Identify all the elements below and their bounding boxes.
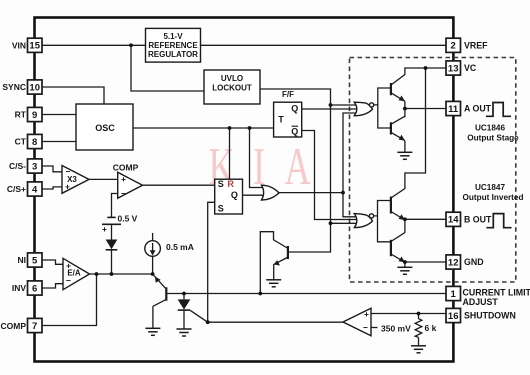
transistor Q2 lower A-totem NPN xyxy=(391,116,405,140)
pin name labels right xyxy=(463,40,530,320)
svg-text:+: + xyxy=(65,181,70,191)
wire clock to latch R input xyxy=(229,128,231,179)
node clock to OR xyxy=(248,126,252,130)
wire OR gate output to PWM node xyxy=(279,192,343,194)
svg-text:SHUTDOWN: SHUTDOWN xyxy=(464,311,516,321)
wire C/S+ pin4 to X3 non-inverting input xyxy=(42,187,62,189)
pin 15 VIN xyxy=(28,38,43,52)
toggle flip-flop F/F box xyxy=(274,102,302,137)
wire X3 output to COMP comparator + input xyxy=(89,178,118,180)
wire shutdown comparator + input to pin16 xyxy=(371,313,446,315)
svg-text:5.1-V: 5.1-V xyxy=(163,32,183,41)
wire clamp diode cathode to shutdown node xyxy=(190,310,207,322)
wire NOR A output branch to A totem bases xyxy=(374,88,391,105)
pin 11 A OUT xyxy=(446,101,461,115)
node clock to latch R xyxy=(228,126,232,130)
diode D1 (0.5V clamp diode) xyxy=(106,240,118,250)
svg-text:15: 15 xyxy=(29,41,40,52)
svg-text:Q: Q xyxy=(291,126,298,136)
node 6k resistor tap xyxy=(417,312,421,316)
ground below clamp transistor xyxy=(145,328,160,335)
PWM latch box xyxy=(215,179,243,214)
node A OUT xyxy=(403,107,407,111)
node shutdown collector xyxy=(258,292,262,296)
pin 14 B OUT xyxy=(446,212,461,226)
svg-text:−: − xyxy=(121,189,126,199)
resistor 6k zigzag xyxy=(415,319,422,338)
svg-text:C/S-: C/S- xyxy=(9,161,26,171)
5.1-V reference regulator box xyxy=(146,28,201,62)
svg-text:9: 9 xyxy=(32,110,37,121)
transistor Q3 upper B-totem NPN xyxy=(391,197,405,221)
svg-text:0.5 V: 0.5 V xyxy=(118,213,138,223)
pin 1 CURRENT LIMIT ADJUST xyxy=(446,286,461,300)
svg-text:REGULATOR: REGULATOR xyxy=(148,50,198,59)
wire COMP comparator output to latch S input xyxy=(143,184,215,186)
svg-text:OSC: OSC xyxy=(95,123,115,133)
pin 2 VREF xyxy=(446,38,461,52)
svg-text:REFERENCE: REFERENCE xyxy=(148,41,198,50)
pin boxes left column xyxy=(28,38,461,332)
svg-text:5: 5 xyxy=(32,255,38,266)
OR gate (PWM) xyxy=(262,185,280,200)
svg-text:6 k: 6 k xyxy=(425,323,437,333)
svg-text:0.5 mA: 0.5 mA xyxy=(166,242,194,252)
wire REF REG output to VREF pin2 xyxy=(201,44,447,46)
ground below B totem xyxy=(397,267,412,274)
pin 8 CT xyxy=(28,134,43,148)
wire B totem lower emitter to GND pin12 xyxy=(405,261,446,263)
svg-text:Q: Q xyxy=(231,190,238,200)
ground below 6k resistor xyxy=(411,346,426,353)
wire UVLO output down to NOR gates and shutdown transistor base xyxy=(260,89,331,252)
node current source xyxy=(151,272,155,276)
wire 0.5V clamp diode to node xyxy=(111,250,113,274)
svg-text:−: − xyxy=(66,275,71,285)
svg-text:UVLO: UVLO xyxy=(221,74,243,83)
dashed output-stage box xyxy=(350,58,516,283)
wire A totem emitter junction xyxy=(404,101,406,117)
node E/A output xyxy=(95,272,99,276)
wire PWM node to NOR B upper input xyxy=(343,193,358,217)
pin 4 C/S+ xyxy=(28,182,43,196)
svg-text:CT: CT xyxy=(15,137,27,147)
svg-text:13: 13 xyxy=(448,63,459,74)
svg-text:+: + xyxy=(121,174,126,184)
transistor Q5 clamp at E/A output (emitter to node) xyxy=(153,274,167,328)
wire latch Q to OR gate lower input xyxy=(243,194,267,196)
svg-text:+: + xyxy=(364,309,369,319)
ground below diode D2 xyxy=(177,329,192,336)
wire B OUT line to pin14 xyxy=(405,218,446,220)
svg-text:1: 1 xyxy=(451,289,457,300)
transistor Q6 shutdown NPN (UVLO driven) xyxy=(287,246,289,259)
svg-text:LOCKOUT: LOCKOUT xyxy=(212,84,252,93)
transistor Q4 lower B-totem NPN xyxy=(391,233,405,263)
wire UVLO branch to NOR B input xyxy=(331,222,359,224)
transistor Q1 upper A-totem NPN xyxy=(391,83,405,101)
pin 16 SHUTDOWN xyxy=(446,308,461,322)
wire NOR B output branch to B totem bases xyxy=(374,201,391,216)
wire VC branch down to B totem collector xyxy=(391,68,426,198)
svg-text:8: 8 xyxy=(32,137,37,148)
svg-text:A OUT: A OUT xyxy=(464,104,492,114)
node UVLO to NOR A xyxy=(329,103,333,107)
wire CT pin8 to OSC xyxy=(42,141,76,143)
svg-text:4: 4 xyxy=(32,184,38,195)
svg-text:VREF: VREF xyxy=(464,40,488,50)
svg-text:INV: INV xyxy=(12,283,27,293)
wire current source to node xyxy=(152,256,154,274)
svg-text:16: 16 xyxy=(448,311,459,322)
diode D2 (clamp on current limit line) xyxy=(183,294,185,300)
PWM comparator COMP xyxy=(118,172,143,198)
svg-text:SYNC: SYNC xyxy=(2,82,26,92)
svg-text:RT: RT xyxy=(15,110,27,120)
svg-text:NI: NI xyxy=(18,255,27,265)
pin 12 GND xyxy=(446,255,461,269)
svg-text:GND: GND xyxy=(464,257,484,267)
wire shutdown comparator - stub xyxy=(371,327,378,329)
wire A OUT line to pin11 xyxy=(405,108,446,110)
wire VIN pin15 to node A and REF REG input xyxy=(42,44,146,46)
wire VC pin13 to A totem collector xyxy=(391,68,446,85)
wire OSC output to F/F T input xyxy=(133,127,274,129)
svg-text:ADJUST: ADJUST xyxy=(463,297,499,307)
pin 9 RT xyxy=(28,107,43,121)
node VC branch xyxy=(424,66,428,70)
svg-text:Output Inverted: Output Inverted xyxy=(463,193,524,202)
wire PWM node to NOR A lower input xyxy=(343,113,358,193)
pin name labels left xyxy=(1,40,27,331)
svg-text:COMP: COMP xyxy=(1,321,27,331)
NOR gate A xyxy=(354,102,372,116)
svg-text:Output Stage: Output Stage xyxy=(467,133,519,142)
svg-text:−: − xyxy=(363,323,368,333)
svg-text:C/S+: C/S+ xyxy=(7,184,26,194)
svg-text:B OUT: B OUT xyxy=(464,214,492,224)
wire COMP comparator - input to 0.5V clamp xyxy=(112,194,118,218)
node A (VIN branch) xyxy=(129,43,133,47)
node B OUT xyxy=(403,217,407,221)
svg-text:11: 11 xyxy=(448,104,459,115)
wire battery to clamp diode xyxy=(111,224,113,239)
battery 0.5 V offset xyxy=(102,217,121,224)
wire INV pin6 to E/A - input xyxy=(42,284,63,288)
svg-text:COMP: COMP xyxy=(113,163,139,173)
node PWM xyxy=(341,191,345,195)
svg-text:2: 2 xyxy=(451,41,456,52)
svg-text:350 mV: 350 mV xyxy=(381,323,411,333)
svg-text:UC1847: UC1847 xyxy=(475,183,505,192)
wire RT pin9 to OSC xyxy=(42,114,76,116)
shutdown comparator triangle xyxy=(343,308,371,335)
node GND emitter xyxy=(403,260,407,264)
ground below A totem xyxy=(397,152,412,159)
error amplifier E/A xyxy=(63,258,90,289)
node clamp diode xyxy=(110,272,114,276)
svg-text:S: S xyxy=(218,204,224,214)
output stage annotations xyxy=(463,124,524,202)
wire F/F Qbar to NOR B input xyxy=(302,131,358,220)
svg-text:10: 10 xyxy=(29,82,40,93)
current source 0.5 mA circle xyxy=(145,241,161,257)
wire E/A output to COMP pin7 xyxy=(42,274,97,326)
node D2 anode xyxy=(182,292,186,296)
svg-text:S: S xyxy=(218,179,224,189)
wire 6k resistor top lead xyxy=(418,314,420,319)
wire SYNC pin10 to OSC top xyxy=(42,87,104,104)
svg-text:12: 12 xyxy=(448,257,459,268)
svg-text:T: T xyxy=(278,114,284,124)
wire C/S- pin3 to X3 inverting input xyxy=(42,166,62,172)
pin number labels xyxy=(29,41,459,332)
wire node A down to UVLO input xyxy=(131,45,204,91)
svg-text:14: 14 xyxy=(448,215,459,226)
pin 5 NI xyxy=(28,253,43,267)
wire current source stub xyxy=(152,233,154,241)
pin 7 COMP xyxy=(28,318,43,332)
svg-text:VIN: VIN xyxy=(12,40,26,50)
watermark KIA xyxy=(208,137,310,195)
pin 13 VC xyxy=(446,61,461,75)
wire shutdown NPN emitter to ground xyxy=(274,258,288,280)
MAIN OUTLINE border of IC block xyxy=(35,18,454,362)
svg-text:R: R xyxy=(227,179,234,189)
box labels xyxy=(148,32,252,92)
wire NI pin5 to E/A + input xyxy=(42,260,63,264)
node UVLO to NOR B xyxy=(329,221,333,225)
svg-text:+: + xyxy=(102,224,107,234)
svg-text:UC1846: UC1846 xyxy=(475,124,505,133)
NOR gate B xyxy=(354,214,372,228)
ground below shutdown NPN xyxy=(266,280,281,287)
svg-text:Q: Q xyxy=(291,103,298,113)
svg-text:A: A xyxy=(284,137,310,195)
svg-text:CURRENT LIMIT: CURRENT LIMIT xyxy=(463,288,530,298)
wire A totem lower emitter to ground xyxy=(404,141,406,153)
pin 6 INV xyxy=(28,281,43,295)
wire F/F Q to NOR A input xyxy=(302,108,358,110)
pulse waveform icon at B OUT xyxy=(486,214,511,228)
pulse waveform icon at A OUT xyxy=(486,103,511,117)
node shutdown comparator output xyxy=(206,320,210,324)
wire B totem emitter junction xyxy=(404,220,406,233)
current source arrow (0.5 mA) xyxy=(152,243,154,252)
wire shutdown comparator output to latch bottom S input xyxy=(208,202,343,322)
svg-text:6: 6 xyxy=(32,283,37,294)
wire clock to OR gate upper input xyxy=(250,128,267,188)
pin 10 SYNC xyxy=(28,80,43,94)
wire E/A output node line xyxy=(90,273,153,275)
UVLO lockout box xyxy=(204,70,260,104)
wire current limit adjust line: clamp base to pin1 xyxy=(167,293,446,295)
svg-text:VC: VC xyxy=(464,63,477,73)
svg-text:F/F: F/F xyxy=(282,90,294,99)
oscillator OSC box xyxy=(76,104,133,150)
svg-text:3: 3 xyxy=(32,161,37,172)
pin 3 C/S- xyxy=(28,159,43,173)
svg-text:7: 7 xyxy=(32,321,37,332)
wire 6k resistor bottom lead xyxy=(418,337,420,345)
wire shutdown NPN collector to current limit line xyxy=(260,232,287,294)
wire UVLO branch to NOR A input xyxy=(331,104,359,106)
current sense amplifier X3 xyxy=(62,166,89,194)
